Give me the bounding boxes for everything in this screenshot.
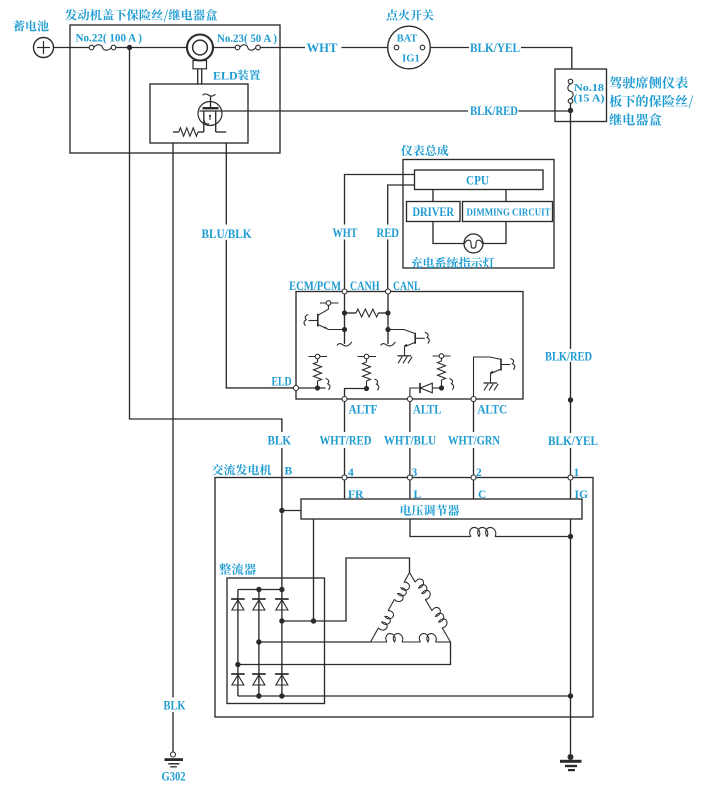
ELD FET circle U1	[198, 102, 222, 126]
diode column mid	[258, 590, 260, 697]
ignition switch label 点火开关	[386, 9, 433, 20]
diode D5	[231, 673, 245, 675]
node phase3	[235, 662, 240, 667]
lamp label 充电系统指示灯	[411, 257, 494, 268]
node ALTL-R7	[439, 385, 444, 390]
node phase1	[279, 618, 284, 623]
wire phase2	[259, 641, 371, 643]
svg-text:WHT: WHT	[307, 41, 338, 55]
ELD FET body legs	[203, 111, 205, 132]
ELD pull-up supply	[309, 356, 328, 358]
wire IG internal	[570, 519, 572, 696]
voltage regulator box	[301, 499, 582, 519]
transistor Q2	[388, 330, 415, 334]
CANH rail curl	[337, 342, 352, 346]
node bbus-mid	[256, 693, 261, 698]
node phase1-reg	[311, 618, 316, 623]
rectifier box	[227, 578, 325, 704]
wire BLU/BLK to ECM ELD	[226, 240, 293, 388]
ground G302	[171, 752, 176, 757]
wire to chassis ground	[570, 696, 572, 754]
node CANL-T	[385, 327, 390, 332]
wire ELD right leg down	[225, 143, 227, 225]
wire RED from CPU	[388, 185, 415, 225]
wire BLK/YEL to fuse box	[521, 48, 572, 70]
DRIVER box	[407, 202, 461, 222]
diode D3	[252, 598, 266, 600]
wire fuse No.23 to WHT	[260, 47, 305, 49]
diode D6	[252, 673, 266, 675]
wire ALTC down	[473, 402, 475, 433]
wire fuse No.18 internal	[570, 103, 572, 111]
svg-text:BLK/RED: BLK/RED	[470, 104, 518, 118]
terminal CANH	[342, 289, 347, 294]
ALTL pull-up supply	[433, 355, 451, 357]
node bbus-right	[279, 693, 284, 698]
bottom bus	[238, 695, 571, 697]
fuse No.18 (15A)	[568, 79, 573, 84]
dash fuse box label line1 驾驶席侧仪表	[610, 76, 688, 89]
ELD wire curl	[326, 379, 330, 390]
ALTF wire curl	[374, 379, 378, 390]
wire regulator to rotor	[410, 519, 471, 537]
wire WHT to CANH	[344, 240, 346, 290]
Q2 base curl	[425, 332, 429, 343]
wire DRIVER to lamp	[433, 222, 464, 244]
svg-text:CPU: CPU	[466, 174, 489, 188]
rectifier label 整流器	[219, 563, 256, 575]
splice dot S1	[568, 397, 573, 402]
svg-text:ECM/PCM: ECM/PCM	[289, 279, 341, 293]
dash fuse/relay box	[555, 69, 607, 122]
fuse No.23 (50A)	[235, 45, 240, 50]
svg-text:BLK: BLK	[268, 434, 292, 448]
terminal 3	[407, 475, 412, 480]
svg-text:CANL: CANL	[393, 279, 421, 293]
top bus	[238, 589, 282, 591]
svg-text:DRIVER: DRIVER	[412, 205, 454, 219]
svg-text:BLK/RED: BLK/RED	[545, 349, 592, 363]
node CANL-R	[385, 310, 390, 315]
resistor R6 (ALTF)	[366, 359, 368, 362]
wire R6 to ALTF	[345, 389, 367, 397]
diode column right	[281, 590, 283, 697]
node ELD-R5	[315, 385, 320, 390]
diode D2	[231, 598, 245, 600]
wire No.18 down	[570, 111, 572, 350]
wire WHT to ignition switch	[342, 47, 388, 49]
wire CPU to DRIVER	[432, 190, 434, 202]
junction dot A	[127, 45, 132, 50]
ELD sensor twin leads	[197, 69, 199, 84]
node bus-B	[279, 587, 284, 592]
wire ELD left leg down	[172, 143, 174, 698]
CANL rail curl	[381, 342, 396, 346]
ground Q3	[484, 382, 498, 384]
wire RED to CANL	[387, 240, 389, 290]
ELD FET drain stem	[210, 96, 212, 107]
svg-text:IG1: IG1	[402, 54, 420, 65]
wire 1 to regulator	[570, 480, 572, 499]
terminal ALTC	[471, 397, 476, 402]
terminal 1	[568, 475, 573, 480]
wire phase3	[238, 642, 451, 665]
ignition switch SW1	[388, 26, 431, 69]
CANL line	[387, 294, 389, 344]
CAN termination resistor R4	[345, 312, 357, 314]
wire fuse No.22 to ELD sensor	[116, 47, 187, 49]
stator winding bottom	[371, 641, 388, 643]
diode column left	[237, 590, 239, 697]
node ground bus	[568, 693, 573, 698]
wire IG1 to BLK/YEL	[431, 47, 470, 49]
svg-text:ELD: ELD	[272, 374, 292, 388]
engine fuse/relay box label 发动机盖下保险丝/继电器盒	[65, 9, 217, 22]
ELD FET gate bar	[203, 107, 219, 109]
svg-text:BAT: BAT	[397, 33, 418, 44]
svg-text:WHT: WHT	[333, 226, 358, 240]
wire BLK/RED to No.18	[519, 110, 571, 112]
node IG-coil	[568, 534, 573, 539]
ignition terminal BAT	[394, 45, 399, 50]
svg-text:G302: G302	[162, 770, 186, 784]
wire BLK to G302	[172, 712, 174, 752]
stator winding right side	[410, 573, 416, 583]
svg-text:ALTC: ALTC	[478, 402, 508, 416]
ALTF pull-up supply	[358, 356, 377, 358]
ELD unit box	[150, 84, 248, 143]
wire donut to fuse No.23	[213, 47, 235, 49]
ALTL wire curl	[449, 379, 453, 390]
svg-text:BLU/BLK: BLU/BLK	[202, 227, 252, 241]
node ALTF-R6	[364, 386, 369, 391]
wire WHT from CPU	[345, 175, 415, 225]
wire ALTF down	[344, 402, 346, 433]
alternator box	[215, 478, 593, 718]
transistor Q3	[474, 357, 502, 397]
Q3 base curl	[510, 359, 514, 370]
stator winding left side	[404, 573, 409, 583]
diode D1	[432, 387, 441, 389]
wire BLK/RED from ELD	[200, 110, 469, 112]
ELD current sensor ring	[187, 35, 213, 61]
wire 3 to regulator	[409, 480, 411, 499]
resistor R7 (ALTL)	[441, 358, 443, 361]
svg-text:ELD: ELD	[213, 68, 238, 82]
svg-text:BLK: BLK	[164, 699, 186, 713]
svg-text:No.22( 100 A ): No.22( 100 A )	[76, 33, 143, 45]
svg-text:WHT/GRN: WHT/GRN	[448, 434, 500, 448]
wire WHT/GRN	[473, 448, 475, 475]
svg-text:B: B	[285, 465, 293, 477]
ELD terminal	[294, 386, 299, 391]
Q1 base curl	[304, 315, 308, 326]
instrument cluster box	[403, 160, 554, 269]
terminal ALTF	[342, 397, 347, 402]
svg-text:CANH: CANH	[350, 279, 380, 293]
rotor field coil L-rot	[470, 527, 496, 536]
engine compartment fuse/relay box	[70, 25, 280, 153]
wire phase1	[282, 558, 410, 621]
node B-reg	[279, 508, 284, 513]
diode D7	[275, 673, 289, 675]
svg-text:ALTL: ALTL	[413, 402, 442, 416]
transistor Q1 pullup	[320, 302, 339, 304]
ignition terminal IG1	[420, 45, 425, 50]
ECM/PCM box	[296, 292, 523, 400]
wire ALTL down	[409, 402, 411, 433]
svg-text:(15 A): (15 A)	[574, 93, 605, 105]
wire lamp to DIMMING	[483, 222, 506, 244]
svg-text:RED: RED	[377, 226, 400, 240]
ELD resistor R-eld	[179, 128, 198, 136]
wire B to regulator	[282, 510, 301, 512]
wire WHT/RED	[344, 448, 346, 475]
ELD resistor R-eld wire left	[173, 131, 179, 133]
dash fuse box label line3 继电器盒	[609, 113, 661, 125]
wire BLK/RED down	[570, 362, 572, 400]
svg-text:WHT/BLU: WHT/BLU	[384, 434, 436, 448]
node phase2	[256, 639, 261, 644]
svg-text:BLK/YEL: BLK/YEL	[548, 434, 598, 448]
wire BLK to B terminal	[281, 448, 283, 478]
alternator label 交流发电机	[212, 464, 271, 475]
dash fuse box label line2 板下的保险丝/	[609, 95, 693, 109]
wire CPU to DIMMING	[505, 190, 507, 202]
wire 4 to regulator	[344, 480, 346, 499]
terminal 2	[471, 475, 476, 480]
svg-text:No.23( 50 A ): No.23( 50 A )	[217, 33, 277, 45]
svg-text:WHT/RED: WHT/RED	[320, 434, 372, 448]
battery label 蓄电池	[14, 20, 49, 31]
chassis ground G1	[568, 754, 574, 760]
svg-text:ALTF: ALTF	[349, 402, 378, 416]
terminal 4	[342, 475, 347, 480]
resistor R5 (ELD)	[317, 359, 319, 362]
ground Q2	[398, 355, 412, 357]
wire B down	[281, 478, 283, 590]
ELD FET top curl	[203, 94, 216, 96]
ELD sensor stem	[193, 61, 207, 69]
node CANH-R	[342, 310, 347, 315]
svg-text:BLK/YEL: BLK/YEL	[470, 41, 520, 55]
transistor Q1	[328, 305, 330, 309]
wire coil to IG line	[495, 536, 571, 538]
wire BLK from junction	[130, 48, 282, 433]
DIMMING CIRCUIT box	[463, 202, 553, 222]
CANH line	[344, 294, 346, 344]
wire splice down	[570, 400, 572, 433]
fuse No.22 (100A)	[89, 45, 94, 50]
regulator label 电压调节器	[401, 505, 460, 516]
wire WHT/BLU	[409, 448, 411, 475]
wire BLK/YEL down to IG	[570, 448, 572, 475]
svg-text:DIMMING CIRCUIT: DIMMING CIRCUIT	[467, 207, 552, 219]
wire ELD internal	[299, 387, 326, 389]
node bus-mid	[256, 587, 261, 592]
node CANH-E	[342, 327, 347, 332]
battery B1	[34, 38, 54, 58]
CPU box	[415, 170, 544, 190]
terminal ALTL	[407, 397, 412, 402]
terminal CANL	[386, 289, 391, 294]
ELD bottom rail	[198, 131, 204, 133]
cluster label 仪表总成	[401, 145, 448, 157]
wire regulator to rectifier	[313, 519, 315, 621]
junction dot No.18 out	[568, 108, 573, 113]
wire battery to fuse box	[54, 47, 90, 49]
wire 2 to regulator	[473, 480, 475, 499]
diode D4	[275, 598, 289, 600]
charging indicator lamp L1	[464, 234, 483, 253]
